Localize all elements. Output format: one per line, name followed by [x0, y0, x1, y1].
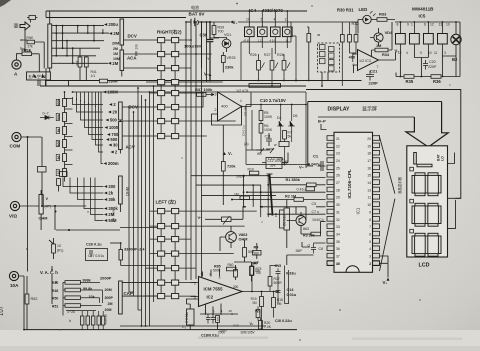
svg-text:300P: 300P [105, 296, 114, 300]
svg-text:16: 16 [229, 309, 233, 313]
svg-text:20M: 20M [105, 308, 112, 312]
wire V+ top [210, 21, 230, 23]
svg-text:1M: 1M [252, 301, 257, 305]
IC1 inner cells [320, 45, 326, 50]
pot W4 with arrow [222, 216, 232, 225]
svg-text:30k: 30k [108, 197, 116, 202]
fuse F1 [22, 52, 32, 56]
svg-text:16: 16 [367, 166, 371, 170]
wire CAP rows [122, 283, 157, 297]
svg-text:0.01u: 0.01u [287, 293, 297, 297]
resistor R37 100k [197, 93, 207, 97]
svg-text:DCV: DCV [128, 34, 137, 39]
IC4 underside wires [241, 22, 296, 81]
pot W5 com [38, 167, 47, 173]
resistor R36 top [431, 75, 441, 79]
wires chip left mesh [287, 200, 326, 249]
svg-text:1/1: 1/1 [91, 74, 96, 78]
svg-text:10Ω: 10Ω [236, 175, 243, 179]
switch LEFT row 7 [158, 294, 179, 299]
transistor VD4 [374, 33, 383, 42]
capacitor C30 [207, 22, 214, 81]
wire VACh drop [51, 266, 53, 304]
wires into left pins rows [232, 178, 326, 215]
svg-text:OHM: OHM [239, 238, 248, 242]
svg-text:19: 19 [367, 144, 371, 148]
svg-text:V+: V+ [233, 20, 238, 25]
resistor R29 [307, 34, 311, 43]
switch MID row 2 [158, 105, 179, 110]
range label 300k [104, 206, 118, 211]
scan smudge bottom center [198, 337, 268, 339]
LCD digit 4 (8) [412, 233, 441, 256]
svg-text:9: 9 [369, 210, 371, 214]
IC4 area dots [248, 10, 250, 12]
pot W12 symbol [266, 148, 274, 153]
central row y185.1 [196, 184, 261, 186]
wire y227.5 cap feed [120, 227, 158, 229]
long power resistor R53 [249, 84, 281, 88]
long vertical wire group center-left [129, 86, 154, 326]
NAND gate IC5 a [396, 27, 406, 50]
resistor R10 mid [249, 171, 258, 175]
resistor R33 [377, 18, 387, 22]
switch MID row 4 [158, 134, 179, 139]
resistor W3 [256, 310, 260, 318]
NAND gate IC5 c [424, 27, 434, 50]
svg-text:R34: R34 [382, 53, 390, 57]
resistor R41 [84, 57, 88, 67]
wire R52 joins [26, 276, 28, 330]
svg-text:500: 500 [110, 118, 118, 123]
svg-text:107: 107 [0, 305, 5, 316]
svg-text:200: 200 [108, 184, 116, 189]
svg-text:10: 10 [57, 171, 61, 175]
svg-text:20M: 20M [112, 42, 119, 46]
switch column verticals lower [161, 209, 175, 299]
wire pin1 pin2 V+ [380, 256, 389, 277]
svg-text:显示屏: 显示屏 [362, 107, 377, 113]
resistor R32 [354, 35, 358, 43]
W9 pot symbol [256, 148, 264, 153]
small switch S1 top [29, 16, 36, 20]
svg-text:1): 1) [286, 39, 289, 43]
svg-text:10: 10 [446, 23, 450, 27]
wire left col joins [129, 243, 150, 326]
resistor R10b [216, 316, 220, 323]
svg-text:30R/105V: 30R/105V [241, 331, 256, 335]
resistor R24 500 [243, 248, 247, 258]
svg-text:C14: C14 [287, 288, 295, 292]
XOR gate IC4 c [271, 22, 281, 42]
svg-text:RIW: RIW [27, 36, 33, 40]
rail y86 [40, 85, 306, 87]
svg-text:BAT 9V: BAT 9V [189, 12, 206, 17]
svg-text:500: 500 [248, 250, 254, 254]
bottom cap cluster [81, 311, 84, 330]
resistor R50 10k [65, 296, 81, 300]
svg-text:R51: R51 [52, 304, 58, 308]
svg-text:MW4011B: MW4011B [412, 7, 434, 12]
svg-text:2k: 2k [108, 191, 113, 196]
rail y17.5 [46, 17, 186, 19]
svg-text:24: 24 [336, 159, 340, 163]
resistor R39 700 [212, 26, 216, 35]
wires d 36P mesh [257, 242, 326, 265]
svg-text:13: 13 [367, 188, 371, 192]
svg-text:C20: C20 [429, 60, 436, 64]
svg-text:36: 36 [336, 247, 340, 251]
resistor R1 380k [307, 183, 317, 187]
capacitor C8 sym [311, 243, 316, 254]
pot W2 box [279, 142, 289, 147]
resistor VR25 [221, 56, 225, 63]
LCD half digit 1 [414, 153, 432, 167]
svg-text:(A): (A) [244, 142, 249, 146]
svg-text:36P: 36P [296, 249, 303, 253]
svg-text:30: 30 [336, 203, 340, 207]
wire switch S1 stubs [27, 17, 38, 19]
svg-text:LED: LED [359, 7, 368, 12]
svg-text:C7 u: C7 u [312, 210, 320, 214]
svg-text:0−7: 0−7 [43, 112, 49, 116]
svg-text:0.051u: 0.051u [104, 314, 108, 324]
op-amp U1 half IC5 [218, 92, 242, 121]
svg-text:25: 25 [336, 166, 340, 170]
svg-text:9k: 9k [57, 129, 61, 133]
svg-text:C5: C5 [312, 202, 317, 206]
svg-text:V−: V− [198, 215, 204, 220]
svg-text:V+: V+ [250, 322, 255, 326]
resistor R38 230k [100, 79, 108, 83]
svg-text:1: 1 [369, 262, 371, 266]
resistor R2 1M [294, 198, 304, 202]
resistor R1W 2.7k [27, 40, 35, 44]
range label 2M ohm [104, 212, 115, 217]
resistor R19 1M [260, 297, 264, 307]
wire upper switch feeds [191, 22, 207, 82]
svg-text:11: 11 [367, 196, 371, 200]
terminal 10A jack [9, 271, 19, 288]
wire c16 stubs [189, 304, 191, 330]
wafer bar ACA [120, 50, 124, 71]
left rail dots [64, 91, 66, 93]
ladder1 wire row 1 [52, 25, 104, 27]
wire bp rail y117 [318, 116, 414, 118]
svg-text:32: 32 [336, 218, 340, 222]
wire com pot chain [41, 137, 43, 167]
central verticals bundle [253, 176, 276, 217]
svg-text:22: 22 [336, 144, 340, 148]
bottom network wires [63, 282, 103, 315]
diode D6 [288, 121, 295, 126]
svg-text:1M: 1M [234, 193, 239, 197]
svg-text:100k: 100k [218, 331, 225, 335]
svg-text:8: 8 [369, 218, 371, 222]
resistor chain divider R10-R15 [63, 99, 67, 107]
IC4 pot wiper arrows [262, 63, 291, 69]
wire V-ohm right [20, 205, 87, 207]
svg-text:IC2: IC2 [207, 295, 214, 300]
wires IC5 top rail [395, 22, 460, 34]
svg-text:D6: D6 [293, 114, 298, 118]
svg-text:13: 13 [439, 23, 443, 27]
svg-text:C10 2.7u/10V: C10 2.7u/10V [260, 98, 286, 103]
switch grid connection wires [122, 40, 257, 296]
central bundle dots [252, 184, 254, 186]
row-left dots [243, 175, 245, 177]
wire VD1 links [210, 35, 227, 53]
svg-text:W7: W7 [254, 261, 259, 265]
range label 20 [108, 110, 118, 115]
expansion line lower [380, 199, 395, 271]
svg-text:11: 11 [434, 51, 438, 55]
svg-text:2: 2 [215, 108, 217, 112]
svg-text:200m: 200m [108, 161, 119, 166]
box C27 [86, 249, 108, 261]
transistor V9 [296, 216, 306, 226]
svg-text:V+: V+ [383, 280, 388, 285]
svg-text:V/Ω: V/Ω [9, 214, 17, 219]
mid verticals right of switch grid [186, 22, 202, 280]
svg-text:17: 17 [367, 159, 371, 163]
svg-text:10k: 10k [89, 295, 96, 299]
capacitor C6 vertical box [284, 208, 290, 230]
range label -500 [106, 137, 118, 142]
wafer bar ACV [119, 122, 123, 150]
wire COM common rail down [27, 137, 29, 272]
resistor R30 [340, 35, 344, 43]
svg-text:35: 35 [336, 240, 340, 244]
wire transistor legs [220, 226, 231, 251]
resistor R0 10 [52, 244, 56, 253]
IC left pin numbers [336, 137, 340, 266]
capacitor 0.41u box [306, 187, 315, 191]
svg-text:R35: R35 [406, 79, 414, 84]
big hollow arrow to LCD (left wall) [406, 117, 428, 147]
svg-text:C11: C11 [265, 135, 271, 139]
svg-text:33000P–2.4: 33000P–2.4 [124, 248, 145, 252]
switch MID row 1 [158, 91, 179, 96]
svg-text:IC1: IC1 [356, 207, 361, 214]
resistor R40 30k [78, 57, 82, 67]
junction Vohm line [54, 205, 56, 207]
wire com pot down [41, 172, 43, 206]
wire C1 conn [306, 161, 326, 171]
central row y195.6 [202, 195, 277, 197]
switch LEFT row 1 [158, 209, 179, 214]
svg-text:IC5: IC5 [419, 14, 426, 19]
chain label boxes [56, 99, 59, 105]
wire VD4 links [370, 22, 392, 56]
switch LEFT row 6 [158, 280, 179, 285]
cluster dots [261, 291, 263, 293]
svg-text:R52: R52 [31, 297, 38, 301]
svg-text:R10: R10 [248, 168, 254, 172]
svg-text:12: 12 [398, 51, 402, 55]
wire ic2 bottom mesh [187, 299, 222, 330]
switch RIGHT row 1 [158, 38, 179, 43]
capacitor C7 box beside C6 [280, 210, 285, 228]
chain tap wires [65, 109, 73, 165]
range label 1000 [105, 125, 119, 130]
svg-text:220P: 220P [428, 65, 437, 69]
svg-text:1000: 1000 [109, 125, 119, 130]
wire rail left drop x46 [45, 11, 47, 18]
range label 700 [107, 132, 119, 137]
svg-text:12: 12 [430, 23, 434, 27]
svg-text:90: 90 [57, 156, 61, 160]
svg-text:1/2 IC3: 1/2 IC3 [359, 59, 371, 63]
junction y230 [68, 229, 70, 231]
svg-text:R32: R32 [352, 22, 359, 26]
junction opamp out [241, 106, 243, 108]
ladder1 wire row 3 [52, 40, 104, 42]
svg-text:V−: V− [299, 165, 305, 170]
wire V-OHM res down [40, 190, 42, 230]
svg-text:863: 863 [303, 227, 309, 231]
R30-32 wires [342, 22, 356, 86]
svg-text:(4P): (4P) [45, 205, 51, 209]
wire arrow chain [22, 20, 45, 69]
R26-28 bottom wires [259, 48, 285, 86]
rail bottom y330 [24, 329, 297, 331]
diode D4 [277, 121, 284, 126]
capacitor C12 box [266, 158, 282, 169]
svg-text:6: 6 [369, 232, 371, 236]
resistor R9 [57, 179, 61, 186]
svg-text:R37 100k: R37 100k [195, 87, 213, 92]
svg-text:1: 1 [411, 23, 413, 27]
switch LEFT row 2 [158, 224, 179, 229]
resistor R33 75K b [234, 270, 238, 278]
svg-text:2M: 2M [108, 302, 113, 306]
switch LEFT row 4 [158, 251, 179, 256]
resistor R4 360 box [253, 251, 262, 256]
block diode pair D1 D2 [27, 72, 51, 80]
capacitor C33 33000P [119, 250, 122, 261]
wire busbar to block [38, 68, 50, 86]
svg-text:C26 0.1u: C26 0.1u [86, 242, 102, 246]
wire 10A right and down [19, 276, 24, 330]
transistor V OHM [226, 232, 237, 243]
switch RIGHT row 3 [158, 66, 179, 71]
upper staircase wires to range arrows [73, 97, 104, 164]
wire y243 row [110, 242, 121, 244]
svg-text:33: 33 [336, 225, 340, 229]
svg-text:4: 4 [406, 51, 408, 55]
cluster frame wires [246, 92, 310, 168]
wire V-ohm drop [54, 206, 56, 230]
svg-text:18: 18 [367, 152, 371, 156]
svg-text:BAT: BAT [437, 153, 441, 161]
range label 2k [104, 191, 114, 196]
capacitor C21 [366, 71, 374, 81]
svg-text:五P1空D2: 五P1空D2 [28, 73, 47, 79]
svg-text:2000P: 2000P [100, 275, 112, 280]
IC bottom pins 39 40 [327, 261, 334, 266]
wiper arm top tick [267, 173, 273, 175]
capacitor C16 box [187, 309, 195, 325]
wire opamp out down [242, 104, 244, 106]
svg-text:V. A. C. h: V. A. C. h [40, 270, 58, 275]
capacitor C20 [423, 60, 428, 70]
terminal A jack [12, 60, 21, 77]
NAND gate IC5 d [438, 27, 448, 50]
svg-text:V+: V+ [228, 151, 233, 156]
display inner box top [308, 102, 442, 167]
svg-text:100K: 100K [264, 115, 273, 119]
svg-text:3: 3 [444, 51, 446, 55]
wire R40 R41 bottoms [80, 48, 86, 80]
wire R9 stub [58, 186, 60, 192]
range label 50M [104, 218, 117, 223]
ladder1 wire row 2 [52, 32, 109, 34]
capacitor C11 [266, 133, 272, 146]
svg-text:4 5 9: 4 5 9 [270, 39, 277, 43]
svg-text:6: 6 [424, 23, 426, 27]
svg-text:14: 14 [367, 181, 371, 185]
svg-text:21: 21 [336, 137, 340, 141]
svg-text:(R1): (R1) [57, 249, 63, 253]
cluster dots [260, 104, 262, 106]
svg-text:10: 10 [367, 203, 371, 207]
svg-text:100K: 100K [264, 128, 273, 132]
range label 2M [109, 31, 120, 36]
rail bottom y326 [120, 325, 266, 327]
resistor V-OHM tall [39, 195, 43, 215]
resistor R52 [25, 294, 29, 304]
svg-text:100M: 100M [107, 90, 118, 95]
svg-text:720k: 720k [227, 165, 236, 169]
svg-text:DISPLAY: DISPLAY [328, 107, 351, 113]
svg-text:2M: 2M [112, 61, 118, 66]
diode D0 symbol [40, 116, 54, 120]
svg-text:3: 3 [369, 255, 371, 259]
svg-text:C27 0.01u: C27 0.01u [88, 254, 104, 258]
svg-text:10A: 10A [10, 283, 19, 288]
under-triangle dots [205, 313, 207, 315]
range label 30k [104, 197, 116, 202]
top right mesh dots [400, 21, 402, 23]
svg-text:10: 10 [57, 244, 61, 248]
svg-text:300: 300 [233, 285, 239, 289]
svg-text:R33: R33 [379, 12, 387, 17]
LED VD3 [363, 11, 376, 24]
IC left pin boxes [327, 136, 334, 266]
svg-text:5: 5 [369, 240, 371, 244]
display outer box [306, 90, 461, 199]
svg-text:C21: C21 [370, 69, 378, 74]
svg-text:C40: C40 [233, 324, 239, 328]
svg-text:5k: 5k [288, 135, 292, 139]
expansion line upper [379, 135, 395, 194]
svg-text:30: 30 [113, 143, 118, 148]
svg-text:MP: MP [284, 160, 289, 164]
svg-text:4030/4070: 4030/4070 [262, 8, 283, 13]
svg-text:230k: 230k [225, 66, 234, 70]
resistor R18 1M [272, 298, 276, 308]
svg-text:1M: 1M [113, 52, 118, 56]
resistor R75 [250, 266, 254, 275]
svg-text:700: 700 [218, 30, 224, 34]
IC1 dashed block [318, 43, 340, 72]
svg-text:C15: C15 [275, 264, 282, 268]
range label x2 [109, 102, 116, 107]
terminal V-ohm jack [9, 201, 20, 218]
svg-text:7: 7 [369, 225, 371, 229]
resistor R17 500R [268, 277, 272, 287]
